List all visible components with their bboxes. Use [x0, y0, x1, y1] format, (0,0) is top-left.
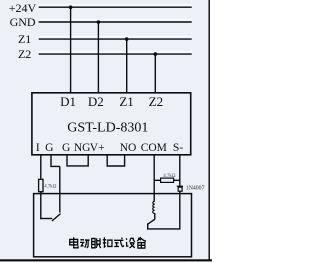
svg-text:Z2: Z2 [18, 47, 31, 61]
svg-text:+24V: +24V [9, 1, 37, 15]
svg-text:1N4007: 1N4007 [186, 185, 205, 191]
svg-text:NO: NO [120, 142, 137, 154]
svg-text:V+: V+ [90, 142, 105, 154]
svg-text:I: I [36, 142, 40, 154]
svg-text:Z2: Z2 [149, 94, 163, 109]
svg-text:G: G [62, 142, 70, 154]
svg-text:D2: D2 [88, 94, 104, 109]
svg-text:G: G [45, 142, 53, 154]
svg-text:4.7kΩ: 4.7kΩ [163, 174, 176, 179]
svg-text:Z1: Z1 [18, 32, 31, 46]
svg-text:Z1: Z1 [119, 94, 133, 109]
svg-text:NG: NG [74, 142, 91, 154]
svg-text:4.7kΩ: 4.7kΩ [44, 185, 57, 190]
svg-text:GST-LD-8301: GST-LD-8301 [67, 120, 148, 135]
svg-text:S-: S- [173, 142, 183, 154]
svg-text:COM: COM [141, 142, 167, 154]
svg-text:D1: D1 [60, 94, 76, 109]
svg-text:GND: GND [10, 15, 36, 29]
